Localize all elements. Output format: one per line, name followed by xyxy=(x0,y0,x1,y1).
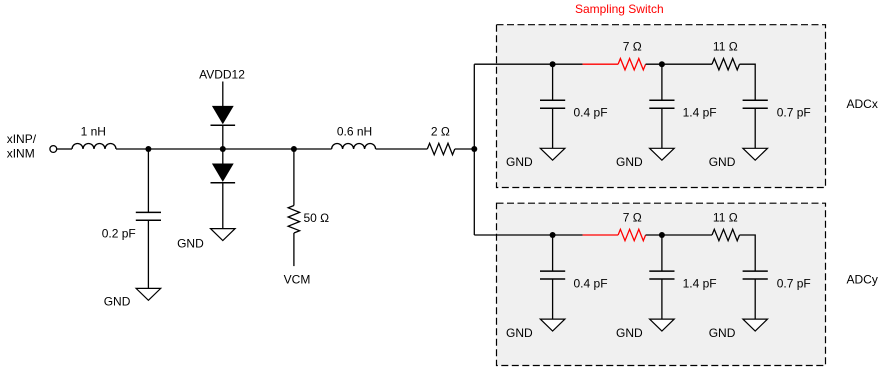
wire xyxy=(222,125,224,149)
wire xyxy=(222,82,224,107)
ground xyxy=(540,148,565,160)
wire xyxy=(293,149,295,206)
wire (red) xyxy=(583,234,619,236)
capacitor 0.7 pF (ADCy) xyxy=(743,271,768,279)
svg-text:1 nH: 1 nH xyxy=(81,125,106,139)
wire xyxy=(754,108,756,148)
svg-text:AVDD12: AVDD12 xyxy=(199,67,245,81)
capacitor 0.4 pF (ADCy) xyxy=(540,271,565,279)
svg-text:0.6 nH: 0.6 nH xyxy=(337,124,372,138)
svg-text:0.7 pF: 0.7 pF xyxy=(777,276,811,290)
ground xyxy=(211,229,236,241)
wire xyxy=(552,64,554,100)
ground xyxy=(743,148,768,160)
svg-text:11 Ω: 11 Ω xyxy=(713,211,738,225)
svg-text:GND: GND xyxy=(506,326,533,340)
wire xyxy=(552,108,554,148)
wire xyxy=(646,234,712,236)
wire xyxy=(147,149,149,212)
resistor 11 ohm (ADCx) xyxy=(712,58,740,69)
junction node E xyxy=(550,61,556,67)
resistor R 2 ohm xyxy=(427,143,455,154)
wire xyxy=(222,149,224,164)
wire xyxy=(57,148,72,150)
svg-text:7 Ω: 7 Ω xyxy=(623,211,642,225)
diode D1 xyxy=(211,106,236,125)
wire xyxy=(473,64,475,235)
wire xyxy=(754,279,756,319)
diode D2 xyxy=(211,164,236,183)
wire xyxy=(293,233,295,266)
junction node C xyxy=(291,146,297,152)
inductor L2 0.6 nH xyxy=(332,144,376,150)
wire xyxy=(455,148,475,150)
wire xyxy=(661,64,663,100)
svg-text:2 Ω: 2 Ω xyxy=(431,124,450,138)
wire xyxy=(116,148,332,150)
svg-text:GND: GND xyxy=(709,155,736,169)
svg-text:0.4 pF: 0.4 pF xyxy=(574,106,608,120)
svg-text:7 Ω: 7 Ω xyxy=(623,40,642,54)
svg-text:50 Ω: 50 Ω xyxy=(304,211,330,225)
svg-text:ADCy: ADCy xyxy=(847,272,878,286)
svg-text:GND: GND xyxy=(104,294,131,308)
node label xINP/xINM xyxy=(7,132,37,160)
wire xyxy=(661,235,663,271)
ground xyxy=(743,319,768,331)
junction node G xyxy=(550,232,556,238)
junction node B xyxy=(220,146,226,152)
svg-text:VCM: VCM xyxy=(284,272,311,286)
junction node H xyxy=(659,232,665,238)
ground xyxy=(650,319,675,331)
wire xyxy=(376,148,428,150)
capacitor C1 0.2 pF xyxy=(136,212,161,220)
junction node A xyxy=(145,146,151,152)
resistor 7 ohm (red, ADCx) xyxy=(618,58,646,69)
wire xyxy=(661,108,663,148)
svg-text:11 Ω: 11 Ω xyxy=(713,40,738,54)
sampling switch box ADCx xyxy=(497,25,826,188)
ground xyxy=(136,288,161,300)
wire xyxy=(147,220,149,288)
svg-text:GND: GND xyxy=(709,326,736,340)
junction node D xyxy=(471,146,477,152)
wire xyxy=(552,279,554,319)
svg-text:GND: GND xyxy=(506,155,533,169)
capacitor 0.4 pF (ADCx) xyxy=(540,100,565,108)
inductor L1 1 nH xyxy=(72,144,116,150)
junction node F xyxy=(659,61,665,67)
svg-text:xINP/: xINP/ xyxy=(7,132,37,146)
wire xyxy=(740,64,756,100)
wire xyxy=(222,183,224,229)
svg-text:0.7 pF: 0.7 pF xyxy=(777,106,811,120)
svg-text:GND: GND xyxy=(616,155,643,169)
wire xyxy=(474,234,582,236)
input terminal xyxy=(50,146,57,153)
ground xyxy=(540,319,565,331)
ground xyxy=(650,148,675,160)
wire xyxy=(552,235,554,271)
wire xyxy=(474,63,582,65)
capacitor 1.4 pF (ADCx) xyxy=(649,100,674,108)
wire xyxy=(740,235,756,271)
svg-text:1.4 pF: 1.4 pF xyxy=(683,106,717,120)
svg-text:xINM: xINM xyxy=(7,147,35,161)
wire xyxy=(646,63,712,65)
resistor 11 ohm (ADCy) xyxy=(712,229,740,240)
svg-text:Sampling Switch: Sampling Switch xyxy=(575,2,664,16)
capacitor 0.7 pF (ADCx) xyxy=(743,100,768,108)
sampling switch box ADCy xyxy=(497,203,826,365)
svg-text:ADCx: ADCx xyxy=(847,97,878,111)
svg-text:GND: GND xyxy=(177,237,204,251)
capacitor 1.4 pF (ADCy) xyxy=(649,271,674,279)
svg-text:0.4 pF: 0.4 pF xyxy=(574,276,608,290)
resistor 7 ohm (red, ADCy) xyxy=(618,229,646,240)
svg-text:0.2 pF: 0.2 pF xyxy=(102,227,136,241)
wire (red) xyxy=(583,63,619,65)
svg-text:1.4 pF: 1.4 pF xyxy=(683,276,717,290)
wire xyxy=(661,279,663,319)
svg-text:GND: GND xyxy=(616,326,643,340)
resistor 50 ohm xyxy=(288,206,299,234)
